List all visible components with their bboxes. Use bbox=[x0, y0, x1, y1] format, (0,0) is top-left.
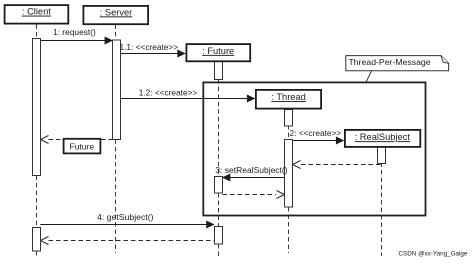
activation Future (getSubject) bbox=[215, 227, 223, 245]
activation Thread (run) bbox=[285, 140, 293, 208]
return value label box Future bbox=[64, 139, 101, 154]
svg-text:: Client: : Client bbox=[22, 7, 51, 17]
svg-text:3: setRealSubject(): 3: setRealSubject() bbox=[215, 165, 287, 175]
svg-text:1: request(): 1: request() bbox=[53, 27, 96, 37]
object box Future bbox=[186, 44, 250, 61]
message 1.2: <<create>> bbox=[120, 87, 255, 102]
svg-text:2: <<create>>: 2: <<create>> bbox=[290, 128, 342, 138]
object box RealSubject bbox=[345, 130, 420, 147]
svg-text:1.1: <<create>>: 1.1: <<create>> bbox=[120, 42, 179, 52]
lifeline RealSubject bbox=[381, 148, 383, 257]
frame Thread-Per-Message boundary bbox=[203, 82, 425, 215]
activation Future (setRealSubject) bbox=[215, 177, 223, 194]
activation Thread (constructor stub) bbox=[285, 110, 293, 127]
message 3: setRealSubject() bbox=[222, 174, 285, 182]
note connector line bbox=[366, 71, 372, 83]
return dashed Server to Client (Future) bbox=[41, 136, 113, 144]
object box Server bbox=[83, 6, 148, 24]
svg-text:CSDN @xx-Yang_Gaige: CSDN @xx-Yang_Gaige bbox=[399, 251, 468, 258]
activation Client (getSubject) bbox=[33, 228, 41, 252]
svg-text:: RealSubject: : RealSubject bbox=[355, 132, 411, 142]
message 1: request() bbox=[40, 27, 113, 45]
object box Client bbox=[5, 5, 69, 24]
lifeline Future bbox=[218, 79, 220, 257]
svg-text:Future: Future bbox=[70, 142, 95, 152]
lifeline Server bbox=[115, 25, 117, 254]
message 2: <<create>> bbox=[290, 128, 345, 145]
return create dashed RealSubject to Thread bbox=[293, 161, 382, 169]
message 4: getSubject() bbox=[40, 212, 214, 229]
svg-text:: Thread: : Thread bbox=[271, 92, 305, 102]
activation Server bbox=[113, 40, 121, 140]
object box Thread bbox=[256, 90, 321, 109]
note Thread-Per-Message bbox=[346, 56, 449, 71]
activation Client (request) bbox=[33, 39, 41, 176]
svg-text:: Future: : Future bbox=[202, 46, 234, 56]
lifeline Client bbox=[36, 25, 38, 259]
message 1.1: <<create>> bbox=[120, 42, 186, 58]
svg-text:1.2: <<create>>: 1.2: <<create>> bbox=[139, 87, 198, 97]
svg-text:Thread-Per-Message: Thread-Per-Message bbox=[349, 57, 431, 67]
return dashed Future to Client bbox=[41, 237, 215, 245]
activation Future (constructor stub) bbox=[215, 62, 223, 80]
svg-text:4: getSubject(): 4: getSubject() bbox=[97, 212, 154, 222]
return dashed Future to Thread bbox=[223, 191, 285, 199]
activation RealSubject (constructor stub) bbox=[378, 147, 386, 164]
svg-text:: Server: : Server bbox=[100, 7, 133, 17]
lifeline Thread bbox=[288, 110, 290, 253]
